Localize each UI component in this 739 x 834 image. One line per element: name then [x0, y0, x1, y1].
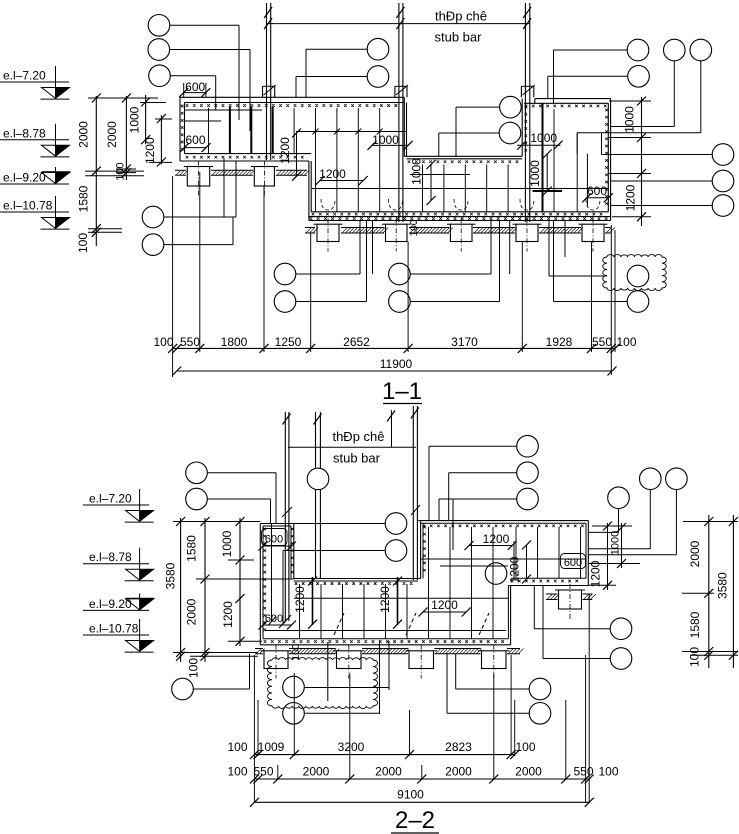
svg-text:2000: 2000	[185, 598, 199, 625]
svg-text:1200: 1200	[293, 586, 307, 613]
svg-text:100: 100	[227, 740, 247, 754]
svg-text:600: 600	[564, 557, 582, 569]
svg-text:1200: 1200	[624, 184, 638, 211]
svg-text:3580: 3580	[164, 562, 178, 589]
svg-text:thĐp chê: thĐp chê	[435, 9, 487, 24]
svg-text:stub bar: stub bar	[333, 451, 381, 466]
svg-text:e.l–9.20: e.l–9.20	[3, 171, 46, 185]
svg-text:550: 550	[180, 335, 200, 349]
svg-text:2823: 2823	[445, 740, 472, 754]
svg-text:1000: 1000	[372, 133, 399, 147]
svg-text:1200: 1200	[319, 167, 346, 181]
svg-text:1000: 1000	[530, 131, 557, 145]
svg-text:2000: 2000	[77, 121, 91, 148]
svg-text:1200: 1200	[483, 532, 510, 546]
svg-text:1928: 1928	[546, 335, 573, 349]
svg-text:100: 100	[409, 219, 420, 236]
svg-text:2652: 2652	[343, 335, 370, 349]
svg-text:600: 600	[265, 534, 283, 546]
svg-text:1000: 1000	[528, 160, 542, 187]
svg-text:100: 100	[515, 740, 535, 754]
svg-text:1200: 1200	[278, 137, 292, 164]
svg-text:1000: 1000	[610, 531, 622, 555]
svg-text:1000: 1000	[410, 158, 424, 185]
svg-text:1200: 1200	[589, 560, 603, 587]
svg-text:1200: 1200	[143, 137, 157, 164]
svg-text:1800: 1800	[221, 335, 248, 349]
svg-text:3170: 3170	[451, 335, 478, 349]
svg-text:100: 100	[76, 233, 90, 253]
svg-text:e.l–10.78: e.l–10.78	[3, 199, 53, 213]
svg-text:100: 100	[187, 658, 201, 678]
svg-text:e.l–7.20: e.l–7.20	[89, 492, 132, 506]
svg-text:550: 550	[253, 765, 273, 779]
svg-text:1200: 1200	[221, 601, 235, 628]
svg-text:2000: 2000	[375, 765, 402, 779]
svg-text:1009: 1009	[258, 740, 285, 754]
svg-text:2000: 2000	[688, 540, 702, 567]
svg-text:1000: 1000	[623, 106, 637, 133]
svg-text:3200: 3200	[338, 740, 365, 754]
svg-text:thĐp chê: thĐp chê	[332, 429, 384, 444]
svg-text:1580: 1580	[185, 535, 199, 562]
svg-text:2000: 2000	[303, 765, 330, 779]
svg-text:1250: 1250	[275, 335, 302, 349]
svg-text:e.l–7.20: e.l–7.20	[3, 69, 46, 83]
svg-text:600: 600	[265, 613, 283, 625]
svg-text:600: 600	[185, 133, 205, 147]
svg-text:2000: 2000	[515, 765, 542, 779]
svg-text:1000: 1000	[220, 530, 234, 557]
svg-text:e.l–10.78: e.l–10.78	[89, 622, 139, 636]
svg-text:100: 100	[598, 765, 618, 779]
svg-text:100: 100	[688, 647, 702, 667]
svg-text:2000: 2000	[445, 765, 472, 779]
svg-text:3580: 3580	[716, 572, 730, 599]
svg-text:600: 600	[185, 80, 205, 94]
svg-text:1200: 1200	[431, 598, 458, 612]
svg-text:100: 100	[616, 335, 636, 349]
svg-text:2–2: 2–2	[395, 807, 435, 834]
svg-text:1580: 1580	[77, 185, 91, 212]
svg-text:550: 550	[592, 335, 612, 349]
svg-text:2000: 2000	[105, 121, 119, 148]
svg-text:1580: 1580	[688, 611, 702, 638]
svg-text:1–1: 1–1	[382, 378, 422, 405]
svg-text:600: 600	[587, 184, 607, 198]
svg-text:stub bar: stub bar	[435, 30, 483, 45]
svg-text:e.l–8.78: e.l–8.78	[89, 550, 132, 564]
svg-text:550: 550	[573, 765, 593, 779]
svg-text:1200: 1200	[378, 586, 392, 613]
svg-text:1000: 1000	[127, 106, 141, 133]
svg-text:e.l–8.78: e.l–8.78	[3, 126, 46, 140]
svg-text:11900: 11900	[380, 357, 413, 371]
svg-text:100: 100	[153, 335, 173, 349]
svg-text:9100: 9100	[397, 788, 424, 802]
svg-text:100: 100	[227, 765, 247, 779]
